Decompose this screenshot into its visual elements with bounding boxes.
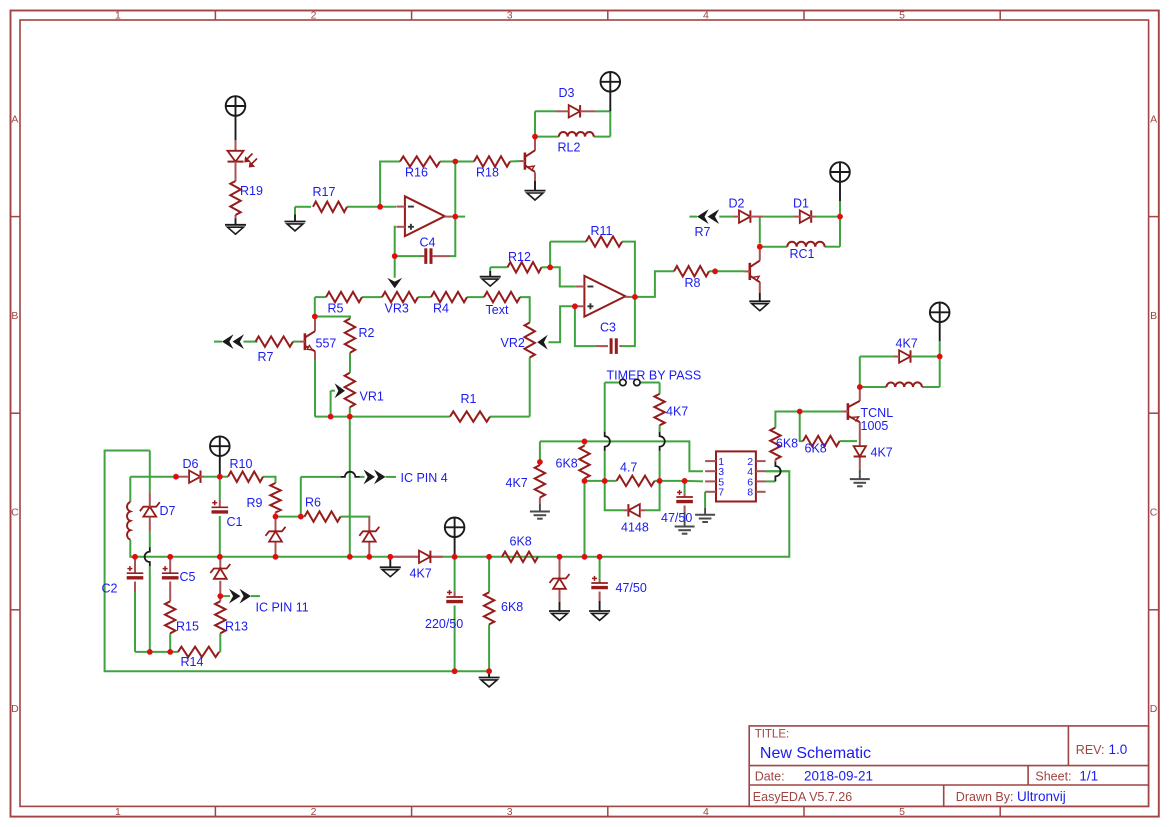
wire hop timer left xyxy=(605,432,610,451)
wire C1 bottom xyxy=(219,516,221,557)
capacitor 47/50 lower xyxy=(591,582,608,584)
diode 4K7tr lead L xyxy=(893,356,899,358)
capacitor 220/50 xyxy=(446,596,463,598)
netflag R7 top xyxy=(697,209,709,224)
wire C4 right up xyxy=(450,217,455,257)
Q3 gnd stem xyxy=(759,293,761,301)
transistor Q2 emitter arrow xyxy=(307,346,312,351)
Q1 emitter lead xyxy=(534,172,536,181)
capacitor C5 xyxy=(162,572,179,574)
diode 4K7 top right xyxy=(899,350,910,362)
wire R13 bottom xyxy=(219,633,221,652)
svg-text:47/50: 47/50 xyxy=(616,581,647,595)
resistor R17 xyxy=(313,202,347,212)
resistor 4K7 timer xyxy=(654,394,664,425)
wire R17 row xyxy=(295,206,311,208)
wire Z3 bottom lead xyxy=(368,542,370,557)
wire ind row left xyxy=(860,386,887,388)
potentiometer VR1 xyxy=(345,373,355,407)
power P1 stem xyxy=(235,116,237,140)
inductor RC1 xyxy=(787,242,824,247)
ruler ticks xyxy=(214,11,216,21)
svg-text:557: 557 xyxy=(316,337,337,351)
svg-text:4K7: 4K7 xyxy=(666,405,688,419)
wire VR3-R4 xyxy=(418,296,431,298)
switch terminal circle 2 xyxy=(634,379,640,385)
capacitor C3 xyxy=(610,338,613,354)
wire L1 bottom xyxy=(130,540,135,557)
transistor Q1 emitter arrow xyxy=(529,166,535,170)
wire 47/50t top xyxy=(684,481,686,494)
svg-text:R15: R15 xyxy=(176,620,199,634)
wire 47/50t gnd stem xyxy=(684,512,686,527)
svg-text:C1: C1 xyxy=(227,515,243,529)
svg-text:4: 4 xyxy=(703,9,709,21)
wire C4 left xyxy=(395,255,421,257)
svg-text:RL2: RL2 xyxy=(558,141,581,155)
wire 47/50t plate lead xyxy=(684,494,686,497)
junction node opamp2 plus xyxy=(572,303,578,309)
svg-text:1: 1 xyxy=(115,9,121,21)
wire R6 row right xyxy=(341,516,370,519)
diode 4148 lead R xyxy=(640,509,645,511)
netflag R7 left xyxy=(222,334,234,349)
wire 557 emitter down xyxy=(314,351,316,360)
svg-text:1005: 1005 xyxy=(861,419,889,433)
svg-text:IC PIN 4: IC PIN 4 xyxy=(401,471,448,485)
resistor 6K8 right of IC xyxy=(770,428,780,460)
wire RL2 right xyxy=(594,136,611,138)
wire power P3 lead xyxy=(839,201,841,216)
svg-text:4: 4 xyxy=(703,806,709,818)
wire 6K8t leads xyxy=(584,441,586,445)
wire Z1 top lead xyxy=(219,557,221,569)
resistor R16 xyxy=(400,156,440,166)
wire 557 emitter to row xyxy=(314,360,316,417)
wire Z4 bottom lead xyxy=(559,589,561,602)
junction node R12-R11 xyxy=(547,264,553,270)
ground Z4 xyxy=(549,610,570,612)
wire bottom row xyxy=(135,651,178,653)
resistor R12 xyxy=(508,262,542,272)
junction node D6-power xyxy=(217,474,223,480)
inductor L1 xyxy=(127,502,130,540)
svg-text:Date:: Date: xyxy=(755,769,785,783)
junction node VR1 wiper row xyxy=(328,414,334,420)
R19 bottom lead xyxy=(235,215,237,219)
transistor Q2 557 (PNP) xyxy=(304,333,307,350)
wire IC PIN11 stub xyxy=(251,595,260,597)
svg-text:D6: D6 xyxy=(183,457,199,471)
svg-text:2: 2 xyxy=(311,9,317,21)
svg-text:C4: C4 xyxy=(420,236,436,250)
diode 4K7tr lead R xyxy=(911,356,913,358)
svg-text:R4: R4 xyxy=(433,302,449,316)
zener D7 xyxy=(140,502,160,511)
LED R19 branch diode xyxy=(228,151,244,162)
svg-text:1/1: 1/1 xyxy=(1079,769,1098,784)
wire Q3 collector xyxy=(759,247,761,261)
resistor 6K8 timer xyxy=(579,446,589,479)
wire D3 row right xyxy=(595,110,610,112)
resistor R9 xyxy=(270,483,280,513)
junction node tcnl base xyxy=(797,409,803,415)
capacitor C4 xyxy=(424,248,427,264)
wire 6K8r top xyxy=(775,412,799,428)
svg-text:R6: R6 xyxy=(305,496,321,510)
wire hop IC PIN 4 over vertical xyxy=(341,472,360,477)
wire D4K7 bottom lead xyxy=(859,457,861,470)
R12 gnd stem xyxy=(489,271,491,277)
wire pin4 out xyxy=(766,470,790,472)
svg-text:R18: R18 xyxy=(476,166,499,180)
junction node 4.7 row c xyxy=(657,478,663,484)
junction node 220/50 bottom xyxy=(452,668,458,674)
resistor R5 xyxy=(326,292,362,302)
junction node 4.7 row d xyxy=(682,478,688,484)
svg-text:TITLE:: TITLE: xyxy=(755,729,790,741)
wire 4148 loop left xyxy=(605,481,624,510)
wire 441 row xyxy=(540,441,703,471)
LED to R19 lead xyxy=(235,162,237,181)
capacitor C4 lead L xyxy=(421,255,425,257)
wire R7L netflag stub xyxy=(214,341,222,343)
wire R16 to node xyxy=(440,161,474,163)
wire node R12 vertical xyxy=(549,242,551,268)
wire collector node up xyxy=(859,357,861,388)
diode D2 xyxy=(739,210,750,222)
zener Z2 xyxy=(266,527,286,536)
junction node D3-RL2 xyxy=(532,134,538,140)
wire D7 column below hop xyxy=(149,566,151,652)
junction node bottom row R15 xyxy=(167,649,173,655)
junction node opamp2 output xyxy=(632,294,638,300)
svg-text:R2: R2 xyxy=(359,326,375,340)
svg-text:D2: D2 xyxy=(729,197,745,211)
power flag P2 xyxy=(601,72,621,92)
svg-text:IC PIN 11: IC PIN 11 xyxy=(256,601,309,615)
svg-text:R17: R17 xyxy=(313,185,336,199)
svg-text:6K8: 6K8 xyxy=(510,535,532,549)
inductor LR1 xyxy=(886,382,922,387)
wire hop timer right xyxy=(660,432,665,451)
svg-text:4K7: 4K7 xyxy=(871,446,893,460)
R17 gnd stem xyxy=(294,215,296,222)
wire power P6 lead xyxy=(939,341,941,357)
wire R9 to node xyxy=(275,513,277,517)
resistor 6K8 bus xyxy=(502,552,538,562)
wire D3 row left xyxy=(535,110,556,112)
ground R12 xyxy=(480,276,501,278)
wire IC PIN4 row2 xyxy=(360,476,365,478)
power flag P6 xyxy=(930,303,950,323)
netflag IC PIN 11 xyxy=(229,589,241,604)
wire C5 to R15 xyxy=(169,582,171,602)
wire 4K7gnd drop xyxy=(539,441,541,465)
wire IC PIN11 branch xyxy=(220,595,230,597)
wire opamp1 plus loop xyxy=(395,227,396,278)
wire C5 top lead xyxy=(169,557,171,573)
diode D6 xyxy=(189,471,200,483)
wire R10 to R9 xyxy=(263,477,276,483)
diode D2 lead R xyxy=(750,216,764,218)
R19 gnd stem xyxy=(235,219,237,225)
svg-text:R1: R1 xyxy=(461,392,477,406)
svg-text:Text: Text xyxy=(486,303,509,317)
wire R5-VR3 xyxy=(362,296,382,298)
wire C2 down to row xyxy=(134,592,136,652)
op-amp U1 output stub xyxy=(445,216,451,218)
ground tcnl xyxy=(850,478,870,480)
svg-text:4K7: 4K7 xyxy=(896,337,918,351)
capacitor C3 lead R xyxy=(619,345,622,347)
svg-text:4.7: 4.7 xyxy=(620,461,637,475)
wire RC1 right xyxy=(825,246,840,248)
wire 220/50 bottom xyxy=(454,606,456,672)
wire timer switch right xyxy=(640,382,660,384)
potentiometer VR2 wiper arrow xyxy=(537,335,547,350)
wire node down to opamp output xyxy=(454,162,456,217)
wire D6 row xyxy=(130,476,176,478)
junction node tcnl power xyxy=(937,354,943,360)
svg-text:R8: R8 xyxy=(685,276,701,290)
ground 4K7 grounded xyxy=(530,511,550,513)
zener D7 lead top xyxy=(149,492,151,506)
junction node tcnl collector xyxy=(857,384,863,390)
wire D3 loop right vertical xyxy=(609,111,611,136)
junction node bus Z3 xyxy=(366,554,372,560)
wire Q4 emitter lead xyxy=(859,422,861,446)
svg-text:R16: R16 xyxy=(405,166,428,180)
wire R1 row left xyxy=(315,416,450,418)
junction node VR1 bottom xyxy=(347,414,353,420)
wire R4-Text xyxy=(467,296,484,298)
wire IC PIN4 riser xyxy=(300,477,302,517)
capacitor C4 lead R xyxy=(432,255,450,257)
resistor R10 xyxy=(228,472,263,482)
svg-text:New Schematic: New Schematic xyxy=(760,745,871,762)
resistor Text xyxy=(484,292,520,302)
svg-text:C5: C5 xyxy=(180,570,196,584)
wire D3 loop left vertical xyxy=(534,111,536,136)
diode D1 lead R xyxy=(810,216,816,218)
wire power node down to RC1 xyxy=(839,217,841,247)
junction node bus Z4 xyxy=(557,554,563,560)
wire C2 bottom lead xyxy=(134,582,136,593)
wire gnd stub on bus xyxy=(389,557,391,560)
diode D6 lead R xyxy=(199,476,204,478)
capacitor C3 lead L xyxy=(596,345,608,347)
svg-text:4K7: 4K7 xyxy=(410,567,432,581)
ground 47/50 lower xyxy=(589,610,610,612)
resistor R14 xyxy=(178,647,219,657)
wire ind row right xyxy=(922,386,940,388)
svg-text:6K8: 6K8 xyxy=(805,442,827,456)
resistor R15 xyxy=(165,601,175,633)
wire C3 right up to output xyxy=(622,300,635,347)
wire main bus xyxy=(130,471,789,557)
wire R13 top lead xyxy=(219,596,221,601)
svg-text:R7: R7 xyxy=(258,350,274,364)
wire 4148 loop right xyxy=(645,481,660,510)
svg-text:3: 3 xyxy=(507,806,513,818)
wire 6K8v bottom xyxy=(488,624,490,671)
wire IC PIN4 stub xyxy=(386,476,397,478)
wire diode row right xyxy=(913,356,940,358)
wire R1 row right xyxy=(490,416,530,418)
wire R5 row left vertical xyxy=(314,297,316,316)
wire power P5 lead xyxy=(454,537,456,557)
4K7gnd res lead xyxy=(539,498,541,505)
svg-text:VR1: VR1 xyxy=(360,390,384,404)
resistor 6K8 below bus xyxy=(484,592,494,624)
capacitor C1 xyxy=(212,506,229,508)
wire timer switch left xyxy=(605,382,620,384)
transistor Q4 emitter arrow xyxy=(853,417,859,421)
svg-text:3: 3 xyxy=(507,9,513,21)
wire R10 lead xyxy=(220,476,228,478)
Q1 gnd stem xyxy=(534,181,536,191)
wire D4K7 gnd stem xyxy=(859,470,861,479)
wire R16 loop vertical xyxy=(380,162,400,207)
resistor R19 xyxy=(230,181,240,215)
wire 47/50b plate lead xyxy=(599,579,601,583)
transistor Q3 xyxy=(748,263,751,280)
transistor Q2 base stub xyxy=(300,341,305,343)
resistor 6K8 tcnl xyxy=(803,436,840,446)
wire 220/50 plate lead xyxy=(454,592,456,597)
junction node D2-D1 drop xyxy=(757,244,763,250)
wire D6 row left corner xyxy=(129,477,131,502)
wire netflag to D2 xyxy=(719,216,733,218)
junction node C4 left xyxy=(392,253,398,259)
svg-text:Drawn By:: Drawn By: xyxy=(956,790,1014,804)
wire 6K8v top xyxy=(488,557,490,593)
junction node R16-R18 xyxy=(452,159,458,165)
resistor R6 xyxy=(305,511,341,521)
wire bus diode lead L xyxy=(393,556,419,558)
svg-text:R19: R19 xyxy=(240,184,263,198)
wire R7L to resistor xyxy=(244,341,258,343)
svg-text:R11: R11 xyxy=(591,224,613,238)
junction node bus C5 xyxy=(167,554,173,560)
junction node bus Z2 xyxy=(273,554,279,560)
zener Z4 xyxy=(550,574,570,583)
svg-text:4K7: 4K7 xyxy=(506,476,528,490)
diode D2 lead L xyxy=(734,216,740,218)
wire R15 bottom xyxy=(169,633,171,652)
wire D2 to D1 xyxy=(764,216,794,218)
resistor R2 xyxy=(345,319,355,353)
potentiometer VR2 xyxy=(525,323,535,358)
IC U3 left pins xyxy=(705,460,716,462)
zener Z3 xyxy=(359,527,379,536)
wire D6 to power node xyxy=(204,476,220,478)
junction node bus gnd xyxy=(387,554,393,560)
wire RL2 left xyxy=(535,136,559,138)
wire 4.7 row to pin5 xyxy=(685,480,703,483)
junction node opamp1 minus xyxy=(377,204,383,210)
inductor RL2 xyxy=(559,132,594,137)
wire pin7 gnd stem xyxy=(704,508,706,515)
wire node down xyxy=(800,412,803,442)
Q3 emitter lead xyxy=(759,282,761,293)
zener D7 lead bottom xyxy=(149,517,151,532)
wire D2D1 node down xyxy=(759,217,761,244)
wire 47/50t bottom xyxy=(684,506,686,513)
wire R11 to output column xyxy=(622,242,635,294)
wire hop pin6 over pin4 xyxy=(775,462,780,481)
junction node bus power xyxy=(452,554,458,560)
wire opamp2 output xyxy=(630,271,674,297)
wire base row xyxy=(800,411,843,413)
wire VR2 wiper run xyxy=(548,306,575,342)
svg-text:D7: D7 xyxy=(160,504,176,518)
junction node 441 row 6K8 xyxy=(582,439,588,445)
resistor R18 xyxy=(474,156,510,166)
svg-text:4148: 4148 xyxy=(621,521,649,535)
wire diode row left xyxy=(860,356,893,358)
wire D2 netflag stub xyxy=(689,216,697,218)
junction node bus 6K8 timer xyxy=(582,554,588,560)
ground 6K8 below bus xyxy=(479,677,500,679)
svg-text:R10: R10 xyxy=(230,457,253,471)
resistor R7 left xyxy=(256,336,294,346)
transistor Q1 xyxy=(524,153,527,170)
junction node opamp1 output xyxy=(452,214,458,220)
svg-text:R14: R14 xyxy=(181,655,204,669)
potentiometer VR1 wiper arrow xyxy=(335,383,345,398)
svg-text:220/50: 220/50 xyxy=(425,617,463,631)
svg-text:8: 8 xyxy=(747,487,753,499)
svg-text:EasyEDA V5.7.26: EasyEDA V5.7.26 xyxy=(753,790,852,804)
wire R6 row left xyxy=(276,516,305,518)
wire long vertical to bus xyxy=(349,417,351,557)
junction node bus 47/50 xyxy=(597,554,603,560)
wire D7 column to hop xyxy=(149,532,151,548)
diode D6 lead L xyxy=(176,476,189,478)
ground Q3 xyxy=(749,300,770,302)
wire node to opamp2 minus xyxy=(550,267,576,286)
capacitor C2 xyxy=(127,572,144,574)
ground pin7 xyxy=(695,514,715,516)
resistor 4.7 xyxy=(617,476,655,486)
svg-text:D3: D3 xyxy=(559,86,575,100)
wire pin7 down xyxy=(704,492,706,508)
transistor Q3 base stub xyxy=(744,270,749,272)
wire 220/50 top xyxy=(454,557,456,592)
svg-text:VR2: VR2 xyxy=(501,336,525,350)
wire 557 collector xyxy=(314,319,316,331)
svg-text:6K8: 6K8 xyxy=(776,437,798,451)
wire D1 to power node xyxy=(816,216,840,218)
wire C1 top lead xyxy=(219,477,221,500)
wire Z4 top lead xyxy=(559,557,561,579)
wire R2 branch xyxy=(315,317,350,319)
resistor 4K7 grounded xyxy=(535,465,545,498)
wire timer left drop2 xyxy=(604,451,606,481)
power flag P5 xyxy=(445,518,465,538)
power flag P3 xyxy=(830,162,850,182)
svg-text:C: C xyxy=(11,507,19,519)
op-amp U1 xyxy=(405,196,445,236)
wire Q4 collector lead xyxy=(859,389,861,401)
wire Text to VR2 col xyxy=(520,297,530,322)
zener Z1 xyxy=(210,564,230,573)
diode D1 xyxy=(800,210,811,222)
wire opamp2 plus stub xyxy=(575,305,576,307)
ground R17 xyxy=(285,221,306,223)
